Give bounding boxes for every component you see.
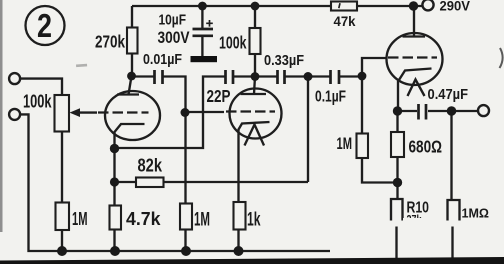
svg-text:10µF: 10µF [159, 12, 187, 29]
svg-text:0.47µF: 0.47µF [428, 87, 469, 103]
svg-text:0.33µF: 0.33µF [264, 52, 304, 69]
svg-text:1M: 1M [194, 210, 210, 231]
svg-text:0.01µF: 0.01µF [143, 52, 182, 68]
svg-text:1k: 1k [247, 210, 261, 231]
svg-text:100k: 100k [23, 92, 52, 112]
svg-text:270k: 270k [95, 32, 125, 52]
svg-text:1M: 1M [72, 209, 88, 229]
svg-text:2: 2 [37, 7, 52, 44]
svg-text:22P: 22P [207, 86, 231, 106]
svg-text:1M: 1M [337, 134, 353, 153]
svg-text:100k: 100k [219, 33, 247, 53]
svg-text:1MΩ: 1MΩ [462, 206, 490, 221]
svg-text:680Ω: 680Ω [409, 137, 443, 157]
svg-text:4.7k: 4.7k [126, 209, 161, 229]
svg-text:300V: 300V [158, 29, 190, 47]
svg-text:290V: 290V [440, 0, 471, 14]
svg-text:47k: 47k [334, 13, 356, 29]
svg-text:82k: 82k [138, 155, 163, 176]
svg-text:0.1µF: 0.1µF [315, 89, 346, 106]
